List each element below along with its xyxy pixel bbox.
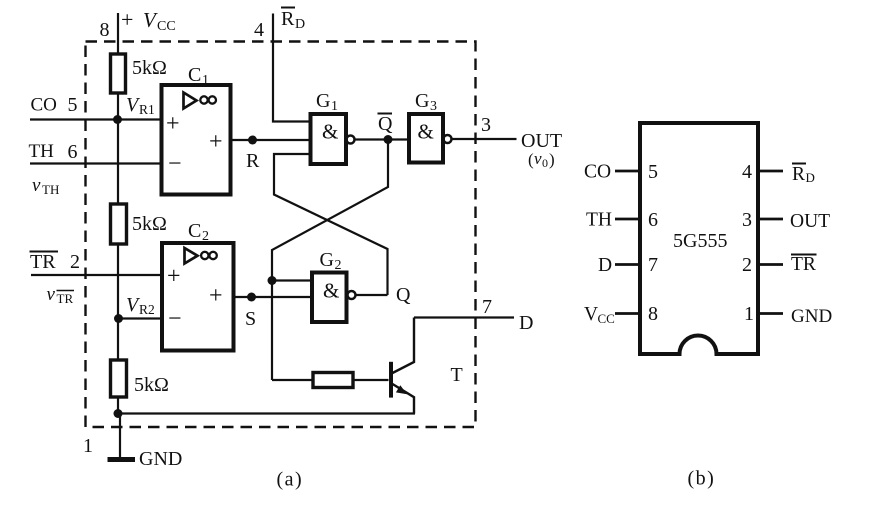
svg-text:1: 1 bbox=[202, 73, 209, 88]
svg-text:−: − bbox=[168, 306, 182, 332]
svg-text:−: − bbox=[168, 151, 182, 177]
CO input wire pin5 bbox=[30, 118, 162, 120]
svg-text:5kΩ: 5kΩ bbox=[134, 374, 169, 396]
wire R3 bottom to GND node bbox=[117, 397, 119, 414]
GND node junction dot bbox=[114, 409, 123, 418]
svg-text:Q: Q bbox=[378, 113, 393, 135]
svg-text:G: G bbox=[316, 90, 330, 112]
base resistor bbox=[313, 373, 353, 388]
svg-text:C: C bbox=[188, 64, 201, 86]
resistor R1 5k bbox=[111, 54, 126, 93]
svg-text:TH: TH bbox=[42, 182, 59, 197]
svg-text:2: 2 bbox=[70, 251, 80, 273]
comparator C1 box bbox=[162, 85, 231, 195]
svg-text:Q: Q bbox=[396, 284, 411, 306]
pin 4 RD-bar stem wire bbox=[273, 14, 311, 122]
wire R2 bottom to VR2 node bbox=[117, 244, 119, 360]
svg-text:R: R bbox=[792, 164, 805, 185]
svg-text:6: 6 bbox=[648, 209, 658, 231]
node VR2 junction dot bbox=[114, 314, 123, 323]
pin 3 stub (b) bbox=[758, 218, 783, 221]
svg-text:6: 6 bbox=[68, 141, 78, 163]
node VR2 wire to C2 bbox=[119, 317, 163, 319]
svg-text:v: v bbox=[47, 284, 56, 305]
svg-text:&: & bbox=[418, 120, 434, 144]
G3 output bubble bbox=[444, 135, 452, 143]
pin 8 stub (b) bbox=[615, 312, 640, 315]
svg-text:OUT: OUT bbox=[790, 211, 830, 232]
svg-text:CC: CC bbox=[598, 311, 615, 326]
svg-text:1: 1 bbox=[331, 99, 338, 114]
wire resistor to base bbox=[353, 379, 389, 381]
svg-text:OUT: OUT bbox=[521, 130, 562, 152]
pin 5 stub (b) bbox=[615, 170, 640, 173]
wire G1 bubble to G3 bbox=[355, 138, 410, 140]
svg-text:V: V bbox=[143, 8, 158, 32]
svg-text:3: 3 bbox=[481, 114, 491, 136]
transistor T base bar bbox=[389, 362, 393, 398]
svg-text:TR: TR bbox=[57, 291, 74, 306]
node VR1 junction dot bbox=[113, 115, 122, 124]
svg-text:D: D bbox=[295, 17, 305, 32]
svg-text:v: v bbox=[534, 149, 542, 168]
svg-text:C: C bbox=[188, 220, 201, 242]
pin 1 stub (b) bbox=[758, 312, 783, 315]
svg-text:8: 8 bbox=[648, 303, 658, 325]
svg-text:5: 5 bbox=[68, 94, 78, 116]
pin 2 stub (b) bbox=[758, 263, 783, 266]
svg-text:CC: CC bbox=[157, 19, 176, 34]
wire Qbar to G2 input (cross-coupling) bbox=[272, 140, 388, 381]
svg-text:&: & bbox=[323, 279, 339, 303]
comparator C2 box bbox=[162, 243, 234, 351]
svg-text:0: 0 bbox=[542, 156, 548, 170]
svg-text:5G555: 5G555 bbox=[673, 230, 727, 252]
svg-text:CO: CO bbox=[31, 95, 57, 116]
svg-text:4: 4 bbox=[254, 19, 264, 41]
pin 4 stub (b) bbox=[758, 170, 783, 173]
C2 output wire to node S and G2 bbox=[234, 296, 313, 298]
svg-text:5kΩ: 5kΩ bbox=[132, 57, 167, 79]
base drive wire bbox=[272, 379, 313, 381]
svg-text:GND: GND bbox=[139, 448, 182, 470]
G2 output bubble bbox=[348, 291, 356, 299]
IC package box 5G555 bbox=[640, 123, 758, 354]
svg-text:(b): (b) bbox=[688, 468, 716, 490]
svg-text:1: 1 bbox=[744, 303, 754, 325]
svg-text:GND: GND bbox=[791, 306, 832, 327]
svg-text:5kΩ: 5kΩ bbox=[132, 213, 167, 235]
node Q wire bbox=[356, 294, 388, 296]
svg-text:4: 4 bbox=[742, 161, 752, 183]
svg-text:(a): (a) bbox=[277, 469, 304, 491]
ground stem bbox=[119, 414, 121, 460]
pin 7 stub (b) bbox=[615, 263, 640, 266]
svg-text:2: 2 bbox=[742, 254, 752, 276]
resistor R2 5k bbox=[111, 204, 127, 244]
resistor R3 5k bbox=[111, 360, 127, 397]
NAND gate G2 box bbox=[312, 273, 347, 323]
svg-text:R1: R1 bbox=[139, 102, 155, 117]
svg-text:5: 5 bbox=[648, 161, 658, 183]
transistor T emitter arrow bbox=[396, 385, 407, 394]
svg-text:8: 8 bbox=[100, 19, 110, 41]
svg-text:G: G bbox=[415, 90, 429, 112]
wire R1 bottom to VR1 node bbox=[117, 93, 119, 120]
OUT wire pin3 bbox=[452, 138, 517, 140]
pin 7 discharge wire bbox=[414, 316, 514, 318]
svg-text:V: V bbox=[584, 304, 598, 325]
svg-text:1: 1 bbox=[83, 435, 93, 457]
node Qbar junction dot bbox=[384, 135, 393, 144]
svg-text:TR: TR bbox=[30, 251, 56, 273]
svg-text:+: + bbox=[209, 283, 223, 309]
svg-text:2: 2 bbox=[335, 258, 342, 273]
junction dot G2 top input bbox=[268, 276, 277, 285]
NAND gate G3 box bbox=[409, 114, 443, 163]
svg-text:2: 2 bbox=[202, 229, 209, 244]
svg-text:G: G bbox=[320, 249, 334, 271]
svg-text:CO: CO bbox=[584, 162, 611, 183]
G1 output bubble bbox=[347, 136, 355, 144]
svg-text:TH: TH bbox=[29, 141, 55, 162]
transistor T collector bbox=[393, 318, 415, 374]
svg-text:D: D bbox=[598, 255, 612, 276]
TR input wire pin2 bbox=[31, 274, 162, 276]
svg-text:D: D bbox=[519, 312, 533, 334]
svg-text:T: T bbox=[451, 364, 463, 386]
svg-text:7: 7 bbox=[648, 254, 658, 276]
svg-text:R: R bbox=[281, 8, 295, 30]
NAND gate G1 box bbox=[311, 114, 347, 164]
C2 infinity symbol bbox=[201, 252, 208, 259]
svg-text:3: 3 bbox=[430, 99, 437, 114]
wire Q to G1 input (cross-coupling) bbox=[274, 154, 388, 295]
TH input wire pin6 bbox=[30, 162, 162, 164]
svg-text:TH: TH bbox=[586, 210, 612, 231]
svg-text:R2: R2 bbox=[139, 302, 155, 317]
ground bar bbox=[108, 457, 136, 462]
svg-text:v: v bbox=[32, 175, 41, 196]
wire dot to G2 input bbox=[272, 279, 312, 281]
C1 infinity symbol bbox=[200, 96, 207, 103]
dashed IC boundary box (a) bbox=[86, 42, 476, 428]
svg-text:3: 3 bbox=[742, 209, 752, 231]
svg-text:D: D bbox=[806, 170, 815, 185]
C2 gain triangle bbox=[185, 248, 198, 264]
svg-text:TR: TR bbox=[791, 254, 816, 275]
svg-text:7: 7 bbox=[482, 296, 492, 318]
bottom rail wire to emitter bbox=[118, 412, 415, 414]
svg-text:): ) bbox=[549, 150, 555, 169]
svg-text:+: + bbox=[167, 264, 181, 290]
svg-text:+: + bbox=[166, 111, 180, 137]
svg-text:+: + bbox=[209, 129, 223, 155]
svg-text:R: R bbox=[246, 150, 260, 172]
svg-text:&: & bbox=[322, 120, 338, 144]
pin 8 VCC stem wire bbox=[117, 13, 119, 55]
wire divider VR1 to R2 bbox=[117, 120, 119, 205]
svg-text:+: + bbox=[121, 7, 133, 32]
C1 output wire to node R bbox=[231, 139, 311, 141]
transistor T emitter bbox=[393, 384, 415, 414]
node S junction dot bbox=[247, 293, 256, 302]
pin 6 stub (b) bbox=[615, 218, 640, 221]
svg-text:S: S bbox=[245, 308, 256, 330]
C1 gain triangle bbox=[184, 93, 197, 109]
node R junction dot bbox=[248, 136, 257, 145]
